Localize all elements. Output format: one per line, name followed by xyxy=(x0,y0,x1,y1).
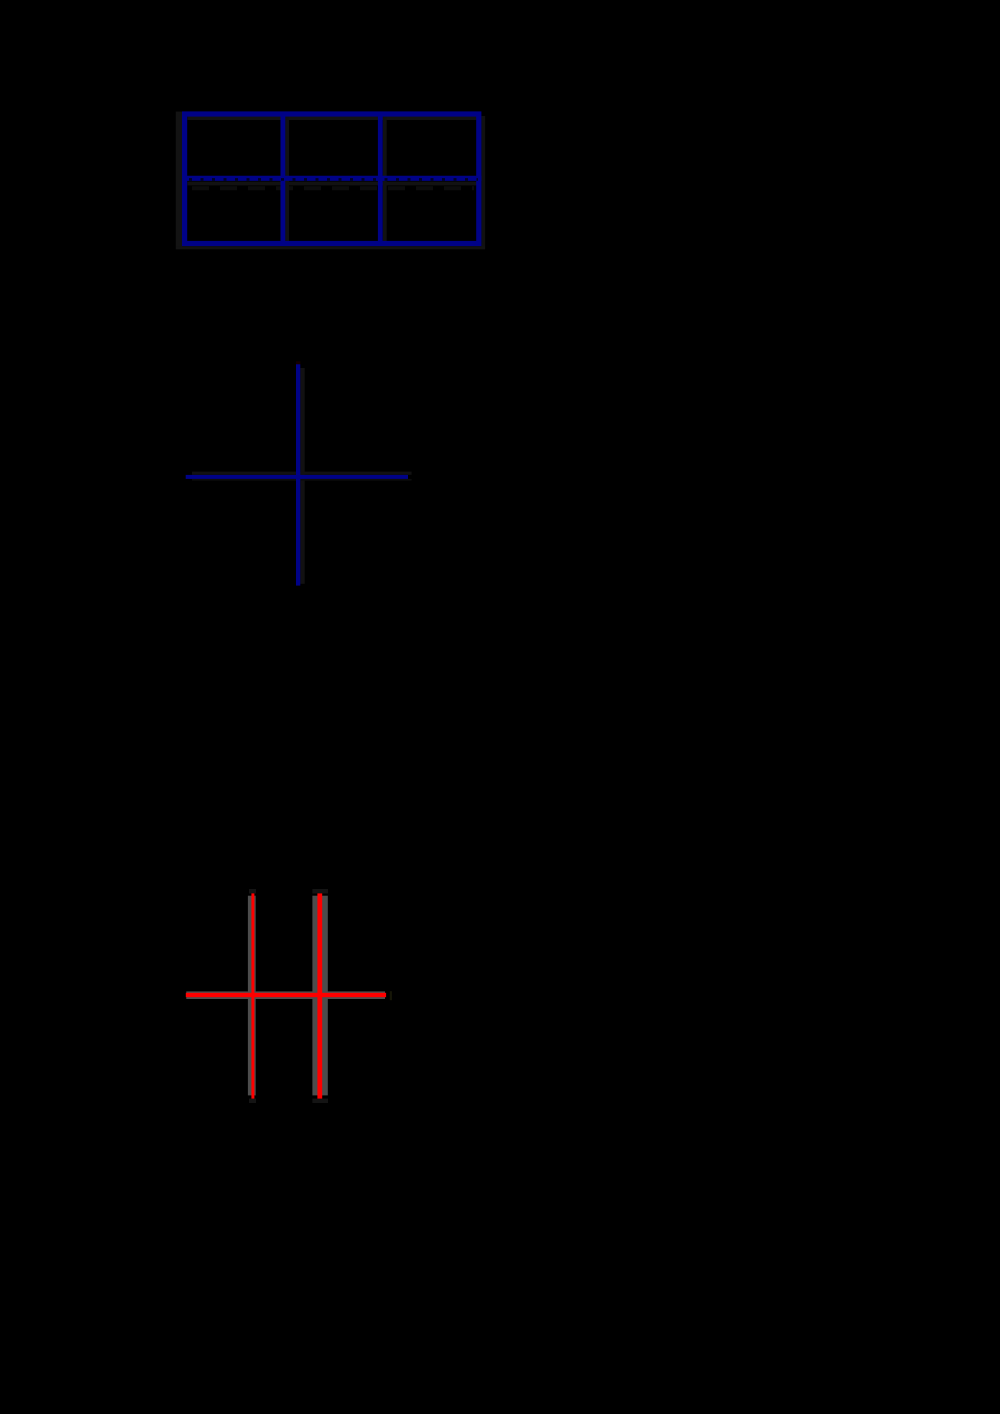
figure F1 red right vertical line xyxy=(317,893,322,1098)
table T1 blue middle horizontal rule xyxy=(182,176,481,181)
table T1 blue outer border xyxy=(185,114,479,244)
figure F1 gray horizontal band xyxy=(186,991,385,999)
figure F1 red left vertical line xyxy=(251,893,254,1098)
figure F1 faint mark right end of horizontal xyxy=(390,991,392,1000)
table T1 black under-border right of inner vertical 2 xyxy=(383,116,387,243)
cross X1 black shadow below horizontal xyxy=(192,479,412,481)
table T1 black under-border top inner band xyxy=(187,116,477,120)
cross X1 blue vertical line xyxy=(296,364,300,585)
table T1 black dashed cell marks under middle rule xyxy=(192,186,474,190)
table T1 black under-border below middle rule xyxy=(187,182,477,186)
table T1 blue inner vertical rule 1 xyxy=(280,114,285,244)
table T1 black under-border left band xyxy=(176,112,182,250)
figure F1 gray left vertical band xyxy=(248,896,256,1096)
cross X1 black shadow above horizontal xyxy=(192,472,412,475)
cross X1 blue horizontal line xyxy=(186,475,408,479)
table T1 black under-border bottom outer band xyxy=(176,246,485,249)
cross X1 black shadow right of vertical xyxy=(300,368,304,584)
figure F1 faint mark below left vertical xyxy=(249,1099,256,1103)
table T1 black under-border right band xyxy=(481,116,485,249)
figure F1 faint mark above left vertical xyxy=(249,889,256,894)
figure F1 faint mark above right vertical xyxy=(312,889,328,894)
table T1 blue inner vertical rule 2 xyxy=(378,114,383,244)
table T1 dark nicks on middle rule xyxy=(189,178,478,181)
figure F1 red horizontal line xyxy=(186,993,386,997)
figure F1 faint mark below right vertical xyxy=(312,1099,328,1103)
table T1 black under-border right of inner vertical 1 xyxy=(285,116,289,243)
figure F1 gray right vertical band xyxy=(312,896,327,1096)
cross X1 dark red tip top xyxy=(296,361,300,364)
